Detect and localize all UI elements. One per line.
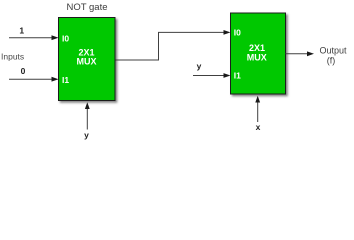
svg-text:1: 1 [19, 26, 24, 36]
wire select x to bottom of U2 [257, 101, 259, 122]
svg-text:y: y [197, 61, 202, 71]
wire U2 output [286, 53, 309, 55]
svg-text:y: y [84, 130, 89, 140]
svg-text:Output: Output [319, 45, 347, 55]
wire select y to bottom of U1 [86, 108, 88, 130]
svg-text:MUX: MUX [247, 52, 267, 62]
svg-text:Inputs: Inputs [1, 52, 24, 62]
svg-text:I0: I0 [234, 28, 241, 38]
svg-text:I0: I0 [62, 34, 69, 44]
wire y to I1 of U2 [193, 75, 225, 77]
svg-text:I1: I1 [62, 75, 69, 85]
mux U2 (right 2X1 MUX box) [231, 13, 286, 94]
svg-text:x: x [256, 122, 261, 132]
wire U1 output to I0 of U2 [116, 32, 225, 60]
mux U1 (left 2X1 MUX box) [59, 18, 116, 101]
wire input 0 to I1 of U1 [9, 78, 53, 80]
svg-text:(f): (f) [327, 55, 336, 65]
svg-text:0: 0 [21, 66, 26, 76]
svg-text:I1: I1 [234, 71, 241, 81]
svg-text:MUX: MUX [77, 57, 97, 67]
svg-text:NOT gate: NOT gate [66, 2, 107, 13]
wire input 1 to I0 of U1 [9, 37, 53, 39]
